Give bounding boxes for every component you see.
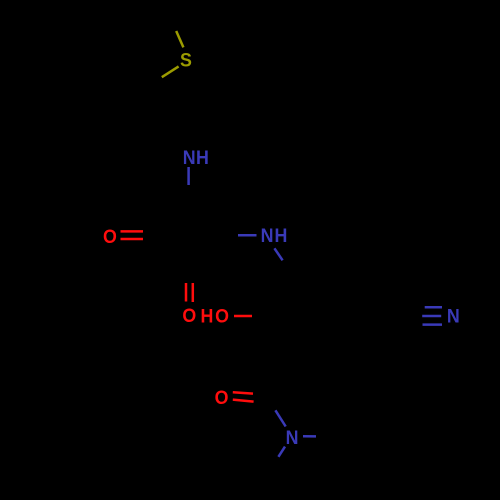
svg-text:H: H: [274, 224, 287, 246]
wire: O4 amide double bond upper line (red): [233, 392, 253, 393]
wire: nitrile triple bond middle line (blue): [422, 315, 441, 318]
wire: NH2 bond down-right to aryl carbon (N-half, blue): [274, 248, 282, 260]
svg-text:H: H: [200, 305, 213, 327]
wire: thiophene S upper bond (S-half, yellow): [176, 31, 183, 47]
wire: nitrile triple bond top line (blue): [425, 306, 442, 309]
svg-text:N: N: [261, 224, 274, 246]
wire: O4 amide double bond lower line (red): [233, 400, 254, 402]
wire: N4 bond down-left to methyl (N-half, blue): [278, 447, 285, 457]
svg-text:O: O: [215, 386, 229, 408]
wire: O2 vertical double bond right line (red): [192, 283, 195, 302]
svg-text:S: S: [180, 49, 192, 71]
wire: O2 vertical double bond left line (red): [185, 283, 188, 302]
wire: NH2 bond left to carbon (N-half, blue): [238, 234, 257, 237]
wire: amide N4 bond up-left to carbonyl carbon (N-half, blue): [275, 410, 285, 426]
wire: O1 double bond lower line (red): [121, 238, 144, 241]
svg-text:H: H: [196, 146, 209, 168]
wire: thiophene S lower-left bond (S-half, yellow): [162, 66, 179, 77]
wire: nitrile triple bond bottom line (blue): [423, 323, 443, 326]
svg-text:N: N: [447, 304, 460, 326]
svg-text:O: O: [103, 225, 117, 247]
svg-text:N: N: [183, 146, 196, 168]
svg-text:O: O: [215, 305, 229, 327]
wire: N4 bond right to methyl (N-half, blue): [303, 435, 316, 438]
svg-text:N: N: [286, 426, 299, 448]
wire: HO bond right to carbon (O-half, red): [234, 315, 252, 318]
svg-text:O: O: [182, 304, 196, 326]
wire: NH1 bond down to carbon (N-half, blue): [187, 167, 190, 185]
wire: O1 double bond upper line (red): [121, 230, 144, 233]
